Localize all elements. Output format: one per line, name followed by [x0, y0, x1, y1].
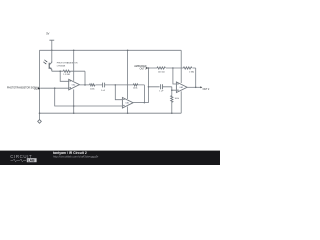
node junction OA3 inverting branch — [172, 67, 174, 69]
svg-text:1 MΩ: 1 MΩ — [189, 72, 194, 74]
resistor R2 — [90, 84, 95, 86]
wire OA2 noninverting long branch — [55, 88, 123, 106]
wire cap row — [149, 86, 172, 88]
svg-text:OA1: OA1 — [72, 84, 76, 87]
wire input row — [40, 87, 68, 89]
svg-text:1 uF: 1 uF — [159, 91, 164, 93]
node junction R6 bottom rail — [171, 112, 173, 114]
wire cap row to noninverting — [172, 87, 177, 90]
node junction OA2 inverting branch — [115, 84, 117, 86]
wire bottom rail — [40, 112, 182, 114]
node junction OA1 output — [84, 84, 86, 86]
node input flag arrow — [38, 87, 40, 89]
op-amp OA2 — [122, 98, 133, 109]
resistor R5 — [133, 84, 137, 86]
svg-text:1.5 MΩ: 1.5 MΩ — [63, 74, 70, 76]
node junction cap row — [148, 86, 150, 88]
svg-text:OA3: OA3 — [179, 86, 183, 89]
wire top feedback row right — [149, 67, 196, 69]
resistor R1 — [63, 70, 70, 72]
watermark logo LAB — [27, 158, 37, 162]
wire OA3 V+ pin — [180, 50, 182, 83]
wire R4 feedback corner — [195, 68, 197, 87]
node junction input branch — [54, 87, 56, 89]
resistor R3 — [157, 67, 165, 69]
watermark bar — [0, 151, 220, 165]
wire OA3 V- pin — [180, 91, 182, 113]
wire R5 to OA2 output — [143, 85, 145, 103]
node junction OA3 output — [195, 87, 197, 89]
wire OA3 output row — [187, 86, 200, 88]
svg-text:OA2: OA2 — [125, 102, 129, 105]
wire OA1 output row — [79, 84, 144, 86]
wire OA2 output to flag row vertical — [148, 68, 150, 103]
svg-text:http://circuitlab.com/c/q43dwv: http://circuitlab.com/c/q43dwvggg9r — [53, 155, 98, 159]
node amplified flag arrow — [146, 67, 148, 69]
power supply 5V bar terminal — [49, 39, 54, 41]
wire 5V vertical — [51, 40, 53, 60]
svg-text:LTR3208: LTR3208 — [57, 65, 66, 67]
wire OA1 feedback vertical — [84, 71, 86, 85]
wire OA2 output row — [133, 102, 148, 104]
svg-text:PHOTOTRANSISTOR: PHOTOTRANSISTOR — [57, 62, 78, 65]
node junction 5V rail — [51, 50, 53, 52]
node junction flag row — [148, 67, 150, 69]
svg-text:1 uF: 1 uF — [101, 90, 106, 92]
node junction OA2 V+ rail — [127, 50, 129, 52]
node junction OA2 output feedback — [144, 102, 146, 104]
wire left vertical — [39, 50, 41, 119]
watermark logo waveform — [11, 159, 27, 162]
ground terminal diamond — [38, 120, 42, 124]
capacitor C2 — [161, 84, 163, 89]
op-amp OA3 — [176, 82, 187, 93]
phototransistor Q1 — [43, 60, 52, 71]
wire OA2 V- pin — [127, 107, 129, 114]
node junction R1 left — [59, 70, 61, 72]
svg-text:LAB: LAB — [28, 159, 36, 163]
node junction OA1 V+ rail — [73, 50, 75, 52]
node junction bottom rail left — [39, 112, 41, 114]
wire feedback row1 — [52, 70, 85, 72]
svg-text:2.2 V: 2.2 V — [34, 89, 40, 91]
wire OA2 V+ pin — [127, 50, 129, 99]
svg-text:5V: 5V — [46, 31, 49, 35]
capacitor C1 — [103, 83, 105, 88]
op-amp OA1 — [69, 79, 80, 90]
svg-text:100 kΩ: 100 kΩ — [158, 72, 165, 74]
wire OA1 V+ pin — [73, 50, 75, 81]
node junction OA2 V- rail — [127, 112, 129, 114]
wire OA2 inverting jog — [115, 85, 122, 100]
svg-text:OUT 2: OUT 2 — [203, 89, 210, 91]
wire OA3 inverting jog — [173, 68, 177, 84]
node junction R6 top — [171, 89, 173, 91]
node junction OA1 pin cross — [73, 105, 75, 107]
resistor R6 — [171, 90, 173, 96]
resistor R4 — [183, 67, 191, 69]
node output flag arrow — [200, 86, 202, 88]
svg-text:OUT 1: OUT 1 — [140, 68, 147, 70]
node junction OA1 V- rail — [73, 112, 75, 114]
wire top V+ rail — [40, 49, 182, 51]
wire OA1 V- pin — [73, 89, 75, 113]
wire inverting jog OA1 — [60, 71, 68, 81]
